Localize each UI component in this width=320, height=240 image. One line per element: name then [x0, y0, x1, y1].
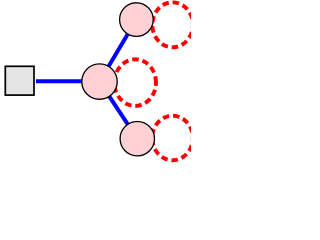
center node [82, 64, 117, 99]
self-loop on top node [152, 2, 193, 47]
top node [120, 3, 154, 37]
bottom node [120, 122, 154, 156]
self-loop on center node [114, 59, 156, 106]
wire center node to top node [100, 20, 137, 82]
wire square node to center node [36, 79, 100, 83]
square input node [5, 66, 34, 95]
wire center node to bottom node [100, 82, 138, 139]
self-loop on bottom node [152, 116, 193, 161]
